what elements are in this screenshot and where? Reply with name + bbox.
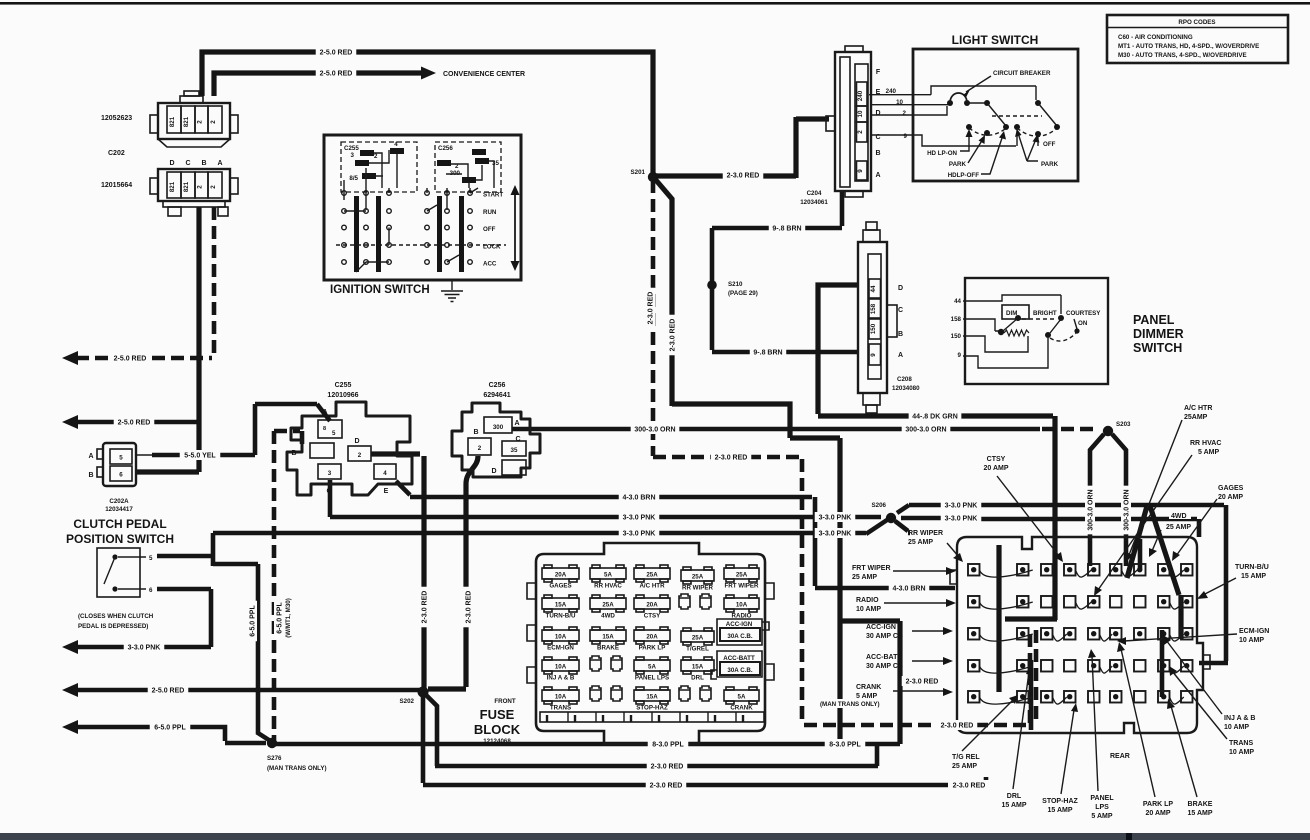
- svg-text:INJ A & B: INJ A & B: [1224, 715, 1255, 722]
- svg-text:821: 821: [183, 116, 190, 127]
- svg-text:300-3.0 ORN: 300-3.0 ORN: [1124, 489, 1131, 530]
- svg-text:BRAKE: BRAKE: [597, 645, 619, 652]
- svg-text:9: 9: [904, 133, 908, 140]
- svg-text:CRANK: CRANK: [730, 705, 753, 712]
- svg-text:9-.8 BRN: 9-.8 BRN: [753, 350, 782, 357]
- svg-text:PARK LP: PARK LP: [639, 645, 666, 652]
- svg-text:4WD: 4WD: [601, 613, 615, 620]
- svg-text:10A: 10A: [736, 602, 748, 609]
- svg-text:3-3.0 PNK: 3-3.0 PNK: [819, 531, 852, 538]
- svg-text:12034080: 12034080: [892, 385, 920, 392]
- svg-text:821: 821: [169, 181, 176, 192]
- svg-text:25A: 25A: [692, 635, 704, 642]
- svg-text:25A: 25A: [736, 572, 748, 579]
- svg-text:25 AMP: 25 AMP: [1166, 524, 1191, 531]
- svg-text:S201: S201: [631, 169, 646, 176]
- svg-text:2: 2: [903, 110, 907, 117]
- svg-text:B: B: [88, 472, 93, 479]
- svg-text:15A: 15A: [646, 694, 658, 701]
- svg-text:D: D: [491, 468, 496, 475]
- svg-text:6-5.0 PPL: 6-5.0 PPL: [277, 602, 284, 634]
- svg-text:2: 2: [857, 130, 864, 134]
- svg-text:300-3.0 ORN: 300-3.0 ORN: [905, 427, 946, 434]
- svg-text:150: 150: [870, 323, 877, 334]
- svg-text:C: C: [326, 488, 331, 495]
- svg-text:12015664: 12015664: [101, 182, 132, 189]
- svg-text:BLOCK: BLOCK: [474, 722, 521, 737]
- svg-text:A/C HTR: A/C HTR: [639, 583, 665, 590]
- svg-text:15A: 15A: [555, 602, 567, 609]
- svg-text:ACC-BATT: ACC-BATT: [723, 655, 755, 662]
- svg-text:20 AMP: 20 AMP: [1218, 494, 1243, 501]
- svg-text:3-3.0 PNK: 3-3.0 PNK: [128, 645, 161, 652]
- svg-text:LPS: LPS: [1095, 804, 1109, 811]
- svg-text:25AMP: 25AMP: [1184, 414, 1208, 421]
- svg-text:2: 2: [358, 452, 362, 459]
- svg-text:HDLP-OFF: HDLP-OFF: [948, 172, 979, 179]
- svg-text:5 AMP: 5 AMP: [856, 693, 877, 700]
- svg-text:A: A: [875, 172, 880, 179]
- svg-text:2-3.0 RED: 2-3.0 RED: [422, 591, 429, 624]
- svg-text:GAGES: GAGES: [1218, 485, 1244, 492]
- svg-text:10 AMP: 10 AMP: [1224, 724, 1249, 731]
- svg-text:20 AMP: 20 AMP: [983, 465, 1008, 472]
- svg-text:C: C: [898, 307, 903, 314]
- svg-text:(PAGE 29): (PAGE 29): [728, 290, 758, 297]
- svg-text:25A: 25A: [692, 574, 704, 581]
- svg-text:15 AMP: 15 AMP: [1187, 810, 1212, 817]
- svg-text:8/5: 8/5: [349, 175, 358, 182]
- svg-text:S203: S203: [1116, 421, 1131, 428]
- svg-text:E: E: [384, 488, 389, 495]
- svg-text:RADIO: RADIO: [856, 597, 879, 604]
- svg-text:5: 5: [119, 455, 123, 462]
- svg-text:44-.8 DK GRN: 44-.8 DK GRN: [912, 414, 958, 421]
- svg-text:2: 2: [197, 120, 204, 124]
- svg-text:MT1 - AUTO TRANS, HD, 4-SPD.,: MT1 - AUTO TRANS, HD, 4-SPD., W/OVERDRIV…: [1118, 43, 1259, 50]
- svg-text:OFF: OFF: [483, 226, 496, 233]
- svg-text:30 AMP CB: 30 AMP CB: [866, 663, 903, 670]
- svg-text:9: 9: [857, 169, 864, 173]
- svg-text:TRANS: TRANS: [550, 705, 571, 712]
- svg-text:2-3.0 RED: 2-3.0 RED: [651, 764, 684, 771]
- svg-text:12124068: 12124068: [483, 738, 511, 745]
- svg-text:T/GREL: T/GREL: [686, 646, 709, 653]
- svg-text:DIMMER: DIMMER: [1133, 327, 1184, 341]
- svg-text:CIRCUIT BREAKER: CIRCUIT BREAKER: [993, 70, 1051, 77]
- svg-text:D: D: [354, 438, 359, 445]
- svg-text:TRANS: TRANS: [1229, 740, 1253, 747]
- svg-text:C: C: [515, 436, 520, 443]
- svg-text:2: 2: [210, 185, 217, 189]
- svg-text:C60 - AIR CONDITIONING: C60 - AIR CONDITIONING: [1118, 34, 1193, 41]
- svg-text:4: 4: [383, 470, 387, 477]
- svg-text:IGNITION SWITCH: IGNITION SWITCH: [330, 284, 430, 296]
- svg-text:15A: 15A: [692, 664, 704, 671]
- svg-text:PARK LP: PARK LP: [1143, 801, 1174, 808]
- svg-text:2-3.0 RED: 2-3.0 RED: [906, 679, 939, 686]
- svg-text:9: 9: [870, 353, 877, 357]
- svg-text:PARK: PARK: [949, 161, 967, 168]
- svg-text:8-3.0 PPL: 8-3.0 PPL: [829, 742, 861, 749]
- svg-text:240: 240: [886, 88, 897, 95]
- svg-text:9: 9: [958, 352, 962, 359]
- svg-text:ECM-IGN: ECM-IGN: [547, 645, 574, 652]
- svg-text:10 AMP: 10 AMP: [856, 606, 881, 613]
- svg-text:3-3.0 PNK: 3-3.0 PNK: [819, 515, 852, 522]
- svg-text:FRT WIPER: FRT WIPER: [724, 583, 759, 590]
- svg-text:20 AMP: 20 AMP: [1145, 810, 1170, 817]
- svg-text:35: 35: [511, 447, 518, 454]
- svg-text:2-5.0 RED: 2-5.0 RED: [118, 420, 151, 427]
- svg-text:2-3.0 RED: 2-3.0 RED: [953, 783, 986, 790]
- svg-text:C256: C256: [489, 382, 506, 389]
- svg-text:DIM: DIM: [1006, 310, 1017, 317]
- svg-text:20A: 20A: [646, 634, 658, 641]
- svg-text:PANEL: PANEL: [1090, 795, 1114, 802]
- svg-text:LIGHT SWITCH: LIGHT SWITCH: [952, 33, 1039, 47]
- svg-text:C208: C208: [897, 376, 912, 383]
- svg-text:PANEL LPS: PANEL LPS: [635, 675, 669, 682]
- svg-text:CONVENIENCE CENTER: CONVENIENCE CENTER: [443, 71, 525, 78]
- svg-text:2-3.0 RED: 2-3.0 RED: [466, 591, 473, 624]
- svg-text:C256: C256: [438, 145, 453, 152]
- svg-text:A: A: [514, 420, 519, 427]
- svg-text:INJ A & B: INJ A & B: [547, 675, 575, 682]
- svg-text:3-3.0 PNK: 3-3.0 PNK: [623, 515, 656, 522]
- svg-text:RR WIPER: RR WIPER: [908, 530, 943, 537]
- svg-text:3-3.0 PNK: 3-3.0 PNK: [945, 503, 978, 510]
- svg-text:4: 4: [394, 141, 398, 148]
- svg-text:ACC-IGN: ACC-IGN: [726, 621, 753, 628]
- svg-text:10: 10: [857, 110, 864, 117]
- svg-text:5A: 5A: [738, 694, 746, 701]
- svg-text:RR WIPER: RR WIPER: [682, 585, 713, 592]
- svg-text:C202: C202: [108, 150, 125, 157]
- svg-text:A: A: [88, 453, 93, 460]
- svg-text:CRANK: CRANK: [856, 684, 881, 691]
- svg-text:B: B: [473, 429, 478, 436]
- svg-text:2: 2: [374, 153, 378, 160]
- svg-text:25 AMP: 25 AMP: [952, 763, 977, 770]
- svg-text:15A: 15A: [602, 634, 614, 641]
- svg-text:12010966: 12010966: [327, 392, 358, 399]
- svg-text:CLUTCH PEDAL: CLUTCH PEDAL: [73, 517, 166, 531]
- svg-text:(MAN TRANS ONLY): (MAN TRANS ONLY): [820, 701, 880, 708]
- svg-text:S206: S206: [872, 502, 887, 509]
- svg-text:D: D: [898, 285, 903, 292]
- svg-text:30 AMP CB: 30 AMP CB: [866, 633, 903, 640]
- svg-text:5: 5: [332, 430, 336, 437]
- svg-text:12034417: 12034417: [105, 506, 133, 513]
- svg-text:A: A: [217, 160, 222, 167]
- svg-text:6-5.0 PPL: 6-5.0 PPL: [250, 605, 257, 637]
- svg-text:STOP-HAZ: STOP-HAZ: [1042, 798, 1078, 805]
- svg-text:4-3.0 BRN: 4-3.0 BRN: [892, 586, 925, 593]
- svg-text:RPO CODES: RPO CODES: [1178, 19, 1215, 26]
- svg-text:BRIGHT: BRIGHT: [1033, 310, 1057, 317]
- svg-text:300-3.0 ORN: 300-3.0 ORN: [1088, 489, 1095, 530]
- svg-text:COURTESY: COURTESY: [1066, 310, 1101, 317]
- svg-text:2-3.0 RED: 2-3.0 RED: [941, 723, 974, 730]
- svg-text:REAR: REAR: [1110, 753, 1130, 760]
- svg-text:3: 3: [351, 152, 355, 159]
- svg-text:D: D: [169, 160, 174, 167]
- svg-text:F: F: [876, 69, 881, 76]
- svg-text:3-3.0 PNK: 3-3.0 PNK: [623, 531, 656, 538]
- svg-text:10A: 10A: [555, 634, 567, 641]
- svg-text:B: B: [201, 160, 206, 167]
- svg-text:LOCK: LOCK: [483, 244, 501, 251]
- svg-text:2: 2: [478, 445, 482, 452]
- svg-text:20A: 20A: [646, 602, 658, 609]
- svg-text:2-5.0 RED: 2-5.0 RED: [320, 71, 353, 78]
- svg-text:25 AMP: 25 AMP: [852, 574, 877, 581]
- svg-text:8-3.0 PPL: 8-3.0 PPL: [652, 742, 684, 749]
- svg-text:2-5.0 RED: 2-5.0 RED: [320, 50, 353, 57]
- svg-text:A: A: [898, 352, 903, 359]
- svg-text:6: 6: [119, 472, 123, 479]
- svg-text:6: 6: [149, 587, 153, 594]
- svg-text:ACC-IGN: ACC-IGN: [866, 624, 896, 631]
- svg-text:300-3.0 ORN: 300-3.0 ORN: [634, 427, 675, 434]
- svg-text:RR HVAC: RR HVAC: [1190, 440, 1221, 447]
- svg-text:10A: 10A: [555, 664, 567, 671]
- svg-text:10 AMP: 10 AMP: [1229, 749, 1254, 756]
- svg-text:2-3.0 RED: 2-3.0 RED: [715, 455, 748, 462]
- svg-text:CTSY: CTSY: [987, 456, 1006, 463]
- svg-text:T/G REL: T/G REL: [952, 754, 980, 761]
- svg-text:158: 158: [951, 316, 962, 323]
- svg-text:2: 2: [210, 120, 217, 124]
- svg-text:15 AMP: 15 AMP: [1047, 807, 1072, 814]
- svg-text:ON: ON: [1078, 320, 1088, 327]
- svg-text:150: 150: [951, 333, 962, 340]
- svg-text:300: 300: [493, 424, 504, 431]
- svg-text:FRONT: FRONT: [494, 698, 516, 705]
- svg-text:DRL: DRL: [691, 675, 704, 682]
- svg-text:2-5.0 RED: 2-5.0 RED: [152, 688, 185, 695]
- svg-text:158: 158: [870, 303, 877, 314]
- svg-text:4WD: 4WD: [1171, 513, 1187, 520]
- svg-text:FUSE: FUSE: [480, 707, 515, 722]
- svg-text:GAGES: GAGES: [549, 583, 571, 590]
- svg-text:(CLOSES WHEN CLUTCH: (CLOSES WHEN CLUTCH: [78, 613, 154, 620]
- svg-text:25A: 25A: [646, 572, 658, 579]
- svg-text:10 AMP: 10 AMP: [1239, 637, 1264, 644]
- svg-text:M30 - AUTO TRANS, 4-SPD., W/OV: M30 - AUTO TRANS, 4-SPD., W/OVERDRIVE: [1118, 52, 1247, 59]
- svg-text:POSITION SWITCH: POSITION SWITCH: [66, 532, 174, 546]
- svg-text:821: 821: [183, 181, 190, 192]
- svg-text:S276: S276: [267, 755, 282, 762]
- svg-text:5-5.0 YEL: 5-5.0 YEL: [184, 453, 216, 460]
- svg-text:SWITCH: SWITCH: [1133, 341, 1182, 355]
- svg-text:B: B: [875, 150, 880, 157]
- svg-text:5A: 5A: [648, 664, 656, 671]
- svg-text:C255: C255: [335, 382, 352, 389]
- svg-text:2: 2: [197, 185, 204, 189]
- svg-text:3-3.0 PNK: 3-3.0 PNK: [945, 516, 978, 523]
- svg-text:CTSY: CTSY: [644, 613, 661, 620]
- svg-text:OFF: OFF: [1043, 141, 1056, 148]
- svg-text:44: 44: [954, 298, 961, 305]
- svg-text:15 AMP: 15 AMP: [1001, 802, 1026, 809]
- svg-text:B: B: [898, 331, 903, 338]
- svg-text:PARK: PARK: [1041, 161, 1059, 168]
- svg-text:15 AMP: 15 AMP: [1241, 573, 1266, 580]
- svg-text:RR HVAC: RR HVAC: [594, 583, 622, 590]
- svg-text:C204: C204: [807, 190, 822, 197]
- svg-text:START: START: [483, 192, 503, 199]
- svg-text:2-3.0 RED: 2-3.0 RED: [650, 783, 683, 790]
- svg-text:20A: 20A: [555, 572, 567, 579]
- svg-text:6-5.0 PPL: 6-5.0 PPL: [154, 725, 186, 732]
- svg-text:ACC-BAT: ACC-BAT: [866, 654, 898, 661]
- svg-text:FRT WIPER: FRT WIPER: [852, 565, 891, 572]
- svg-text:B: B: [291, 450, 296, 457]
- svg-text:BRAKE: BRAKE: [1188, 801, 1213, 808]
- svg-text:2-3.0 RED: 2-3.0 RED: [727, 173, 760, 180]
- svg-text:12052623: 12052623: [101, 115, 132, 122]
- svg-text:STOP-HAZ: STOP-HAZ: [636, 705, 668, 712]
- svg-text:C202A: C202A: [109, 498, 129, 505]
- svg-text:DRL: DRL: [1007, 793, 1022, 800]
- svg-text:C255: C255: [344, 145, 359, 152]
- svg-text:5 AMP: 5 AMP: [1198, 449, 1219, 456]
- svg-text:5: 5: [149, 555, 153, 562]
- svg-text:A/C HTR: A/C HTR: [1184, 405, 1212, 412]
- svg-text:2-3.0 RED: 2-3.0 RED: [648, 292, 655, 325]
- svg-text:9-.8 BRN: 9-.8 BRN: [772, 226, 801, 233]
- svg-text:12034061: 12034061: [800, 199, 828, 206]
- svg-text:TURN-B/U: TURN-B/U: [546, 613, 576, 620]
- svg-text:44: 44: [870, 285, 877, 292]
- svg-text:25 AMP: 25 AMP: [908, 539, 933, 546]
- svg-text:S202: S202: [400, 698, 415, 705]
- svg-text:2-3.0 RED: 2-3.0 RED: [670, 319, 677, 352]
- svg-text:TURN-B/U: TURN-B/U: [1235, 564, 1269, 571]
- svg-text:5 AMP: 5 AMP: [1091, 813, 1112, 820]
- svg-text:30A C.B.: 30A C.B.: [727, 667, 752, 674]
- svg-text:4-3.0 BRN: 4-3.0 BRN: [622, 495, 655, 502]
- svg-text:2-5.0 RED: 2-5.0 RED: [114, 356, 147, 363]
- svg-text:3: 3: [328, 470, 332, 477]
- svg-text:25A: 25A: [602, 602, 614, 609]
- svg-text:5A: 5A: [604, 572, 612, 579]
- svg-text:RUN: RUN: [483, 209, 497, 216]
- svg-text:6294641: 6294641: [483, 392, 510, 399]
- svg-text:ACC: ACC: [483, 261, 497, 268]
- svg-text:S210: S210: [728, 281, 743, 288]
- svg-text:10A: 10A: [555, 694, 567, 701]
- svg-text:240: 240: [857, 90, 864, 101]
- svg-text:8: 8: [323, 426, 326, 432]
- svg-text:PEDAL IS DEPRESSED): PEDAL IS DEPRESSED): [78, 623, 148, 630]
- svg-text:D: D: [875, 110, 880, 117]
- svg-text:ECM-IGN: ECM-IGN: [1239, 628, 1269, 635]
- svg-text:30A C.B.: 30A C.B.: [727, 633, 752, 640]
- svg-text:(W/MT1, M30): (W/MT1, M30): [285, 598, 292, 638]
- svg-text:(MAN TRANS ONLY): (MAN TRANS ONLY): [267, 765, 327, 772]
- svg-text:PANEL: PANEL: [1133, 313, 1175, 327]
- svg-text:HD LP-ON: HD LP-ON: [927, 150, 957, 157]
- svg-text:C: C: [185, 160, 190, 167]
- svg-text:821: 821: [169, 116, 176, 127]
